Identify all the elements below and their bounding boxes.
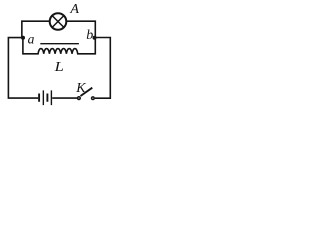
svg-text:A: A xyxy=(69,2,79,17)
svg-text:K: K xyxy=(75,81,86,96)
svg-text:L: L xyxy=(53,59,63,74)
svg-text:a: a xyxy=(28,31,35,46)
svg-text:b: b xyxy=(86,28,93,43)
